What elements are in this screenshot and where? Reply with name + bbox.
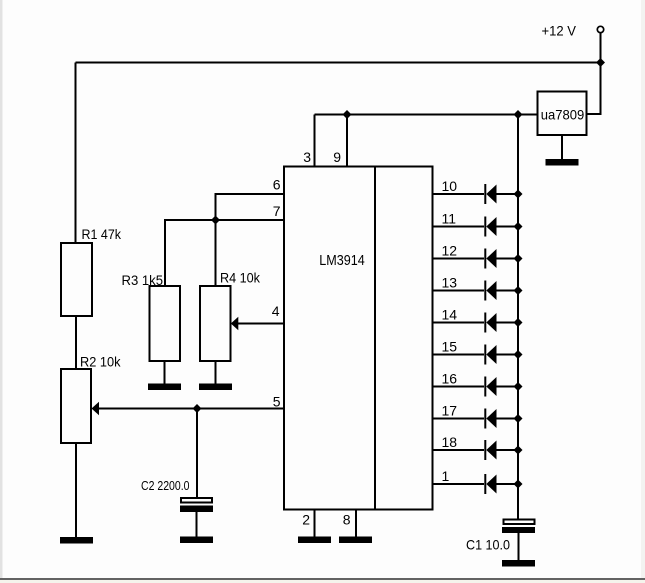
IC internal divider [374,167,376,510]
wire pin 11 to LED [433,226,484,228]
wire pin 15 to LED [433,354,484,356]
svg-text:8: 8 [343,512,351,528]
wire pin 17 to LED [433,418,484,420]
LED D10 [485,184,518,204]
LED D12 [485,249,518,269]
node junction LED rail / V+ [514,110,523,119]
node junction pin9 / V+ [343,110,352,119]
wire regulator to ground [561,135,563,160]
svg-text:R1 47k: R1 47k [82,226,122,242]
svg-text:ua7809: ua7809 [541,107,585,123]
wire pin 5 from R2 wiper to IC [98,408,284,410]
wire pins 3-9 to regulator [315,114,538,116]
LED D14 [485,313,518,333]
frame bottom line [0,578,645,580]
svg-text:13: 13 [442,275,458,291]
ground under R4 [199,384,232,391]
svg-text:14: 14 [442,307,458,323]
wiper arrow of R4 [231,317,239,331]
potentiometer R4 [200,286,231,361]
wire pin 6 [216,194,285,220]
wire R3 to ground [164,361,166,384]
capacitor C1 bottom plate [502,527,535,533]
ground under R3 [148,384,181,391]
node LED 16 / rail [514,382,523,391]
node junction +12V rail [596,58,605,67]
svg-text:11: 11 [442,211,457,227]
svg-text:6: 6 [273,177,281,193]
svg-text:C1 10.0: C1 10.0 [466,537,510,553]
wire pin 2 to ground [314,510,316,538]
wire top +12V rail [76,62,601,64]
svg-text:5: 5 [273,394,281,410]
svg-text:R3 1k5: R3 1k5 [122,272,164,288]
node LED 1 / rail [514,480,523,489]
wire pin 18 to LED [433,449,484,451]
node junction pins 6-7 / R4 [211,216,220,225]
potentiometer R2 [61,369,91,443]
svg-text:10: 10 [442,178,458,194]
svg-text:3: 3 [303,149,311,165]
node LED 11 / rail [514,222,523,231]
LED D13 [485,281,518,301]
ground under pin 2 [298,537,331,544]
wire regulator output to +12V rail [587,33,601,114]
wiper arrow of R2 [92,402,100,416]
capacitor C1 top plate [504,520,535,525]
wire junction down to C2 [196,409,198,499]
LED D17 [485,409,518,429]
wire pin 13 to LED [433,290,484,292]
node LED 15 / rail [514,350,523,359]
wire pin 16 to LED [433,386,484,388]
svg-text:+12 V: +12 V [542,23,577,39]
node LED 13 / rail [514,286,523,295]
wire pin 3 [314,115,316,167]
wire pin 8 to ground [355,510,357,538]
wire R2 bottom to ground [75,443,77,537]
node LED 10 / rail [514,190,523,199]
svg-text:16: 16 [442,371,458,387]
LED D11 [485,217,518,237]
svg-text:LM3914: LM3914 [319,252,365,269]
ground under R2 [60,537,93,544]
node junction pin5/C2 [193,404,202,413]
ground under regulator [546,159,579,166]
LED D16 [485,377,518,397]
frame right strip [641,0,645,580]
svg-text:9: 9 [333,149,341,165]
resistor R3 [150,286,181,361]
wire R4 to ground [215,361,217,384]
svg-text:C2 2200.0: C2 2200.0 [141,478,190,493]
node LED 17 / rail [514,414,523,423]
resistor R1 [61,243,92,316]
svg-text:4: 4 [272,303,280,319]
node LED 12 / rail [514,254,523,263]
wire LED anode rail [517,115,519,520]
ground under C1 [502,560,535,567]
terminal +12 V [597,26,603,32]
capacitor C2 bottom plate [180,506,213,513]
wire pin 12 to LED [433,258,484,260]
wire pin 7 [165,220,284,286]
svg-text:2: 2 [302,512,310,528]
svg-text:1: 1 [442,468,450,484]
wire pin 10 to LED [433,193,484,195]
svg-text:15: 15 [442,339,458,355]
LED D1 [485,474,518,494]
node LED 18 / rail [514,446,523,455]
svg-text:R2 10k: R2 10k [80,354,121,370]
svg-text:R4 10k: R4 10k [220,270,261,286]
frame left strip [0,0,3,580]
svg-text:17: 17 [442,403,458,419]
LED D15 [485,345,518,365]
wire junction to R4 top [215,220,217,286]
wire pin 14 to LED [433,322,484,324]
svg-text:18: 18 [442,434,458,450]
ground under C2 [180,537,213,544]
capacitor C2 top plate [181,498,212,503]
regulator U2 ua7809 [538,92,587,136]
wire C1 to ground [518,533,520,561]
frame bottom strip [0,580,645,583]
wire pin 4 to R4 wiper [237,323,284,325]
op IC U1 LM3914 body [284,167,433,510]
wire pin 1 to LED [433,483,484,485]
wire left vertical from top rail to R1 [75,63,77,244]
wire C2 to ground [196,512,198,537]
svg-text:12: 12 [442,243,458,259]
node LED 14 / rail [514,318,523,327]
wire R1 to R2 [75,316,77,369]
wire pin 9 [346,115,348,167]
svg-text:7: 7 [273,203,281,219]
LED D18 [485,440,518,460]
ground under pin 8 [339,537,372,544]
